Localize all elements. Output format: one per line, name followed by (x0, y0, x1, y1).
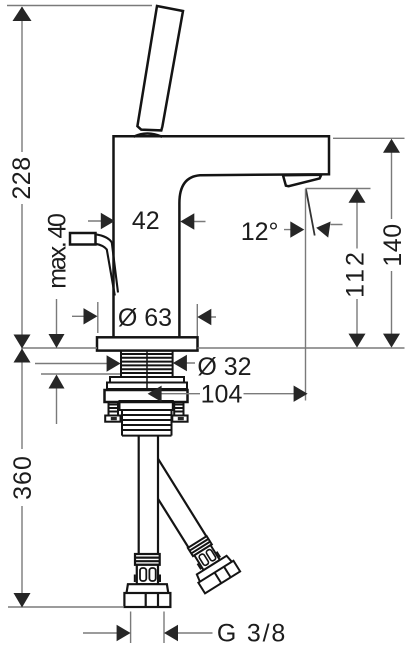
svg-text:104: 104 (201, 381, 243, 409)
svg-text:Ø 63: Ø 63 (118, 304, 172, 332)
svg-text:G 3/8: G 3/8 (217, 619, 287, 647)
svg-text:42: 42 (132, 207, 160, 235)
svg-text:112: 112 (342, 249, 370, 298)
svg-text:140: 140 (379, 223, 407, 266)
svg-text:228: 228 (8, 156, 36, 199)
svg-text:Ø 32: Ø 32 (197, 353, 251, 381)
svg-text:360: 360 (9, 455, 37, 500)
svg-text:max. 40: max. 40 (43, 214, 71, 289)
svg-text:12°: 12° (241, 218, 279, 246)
